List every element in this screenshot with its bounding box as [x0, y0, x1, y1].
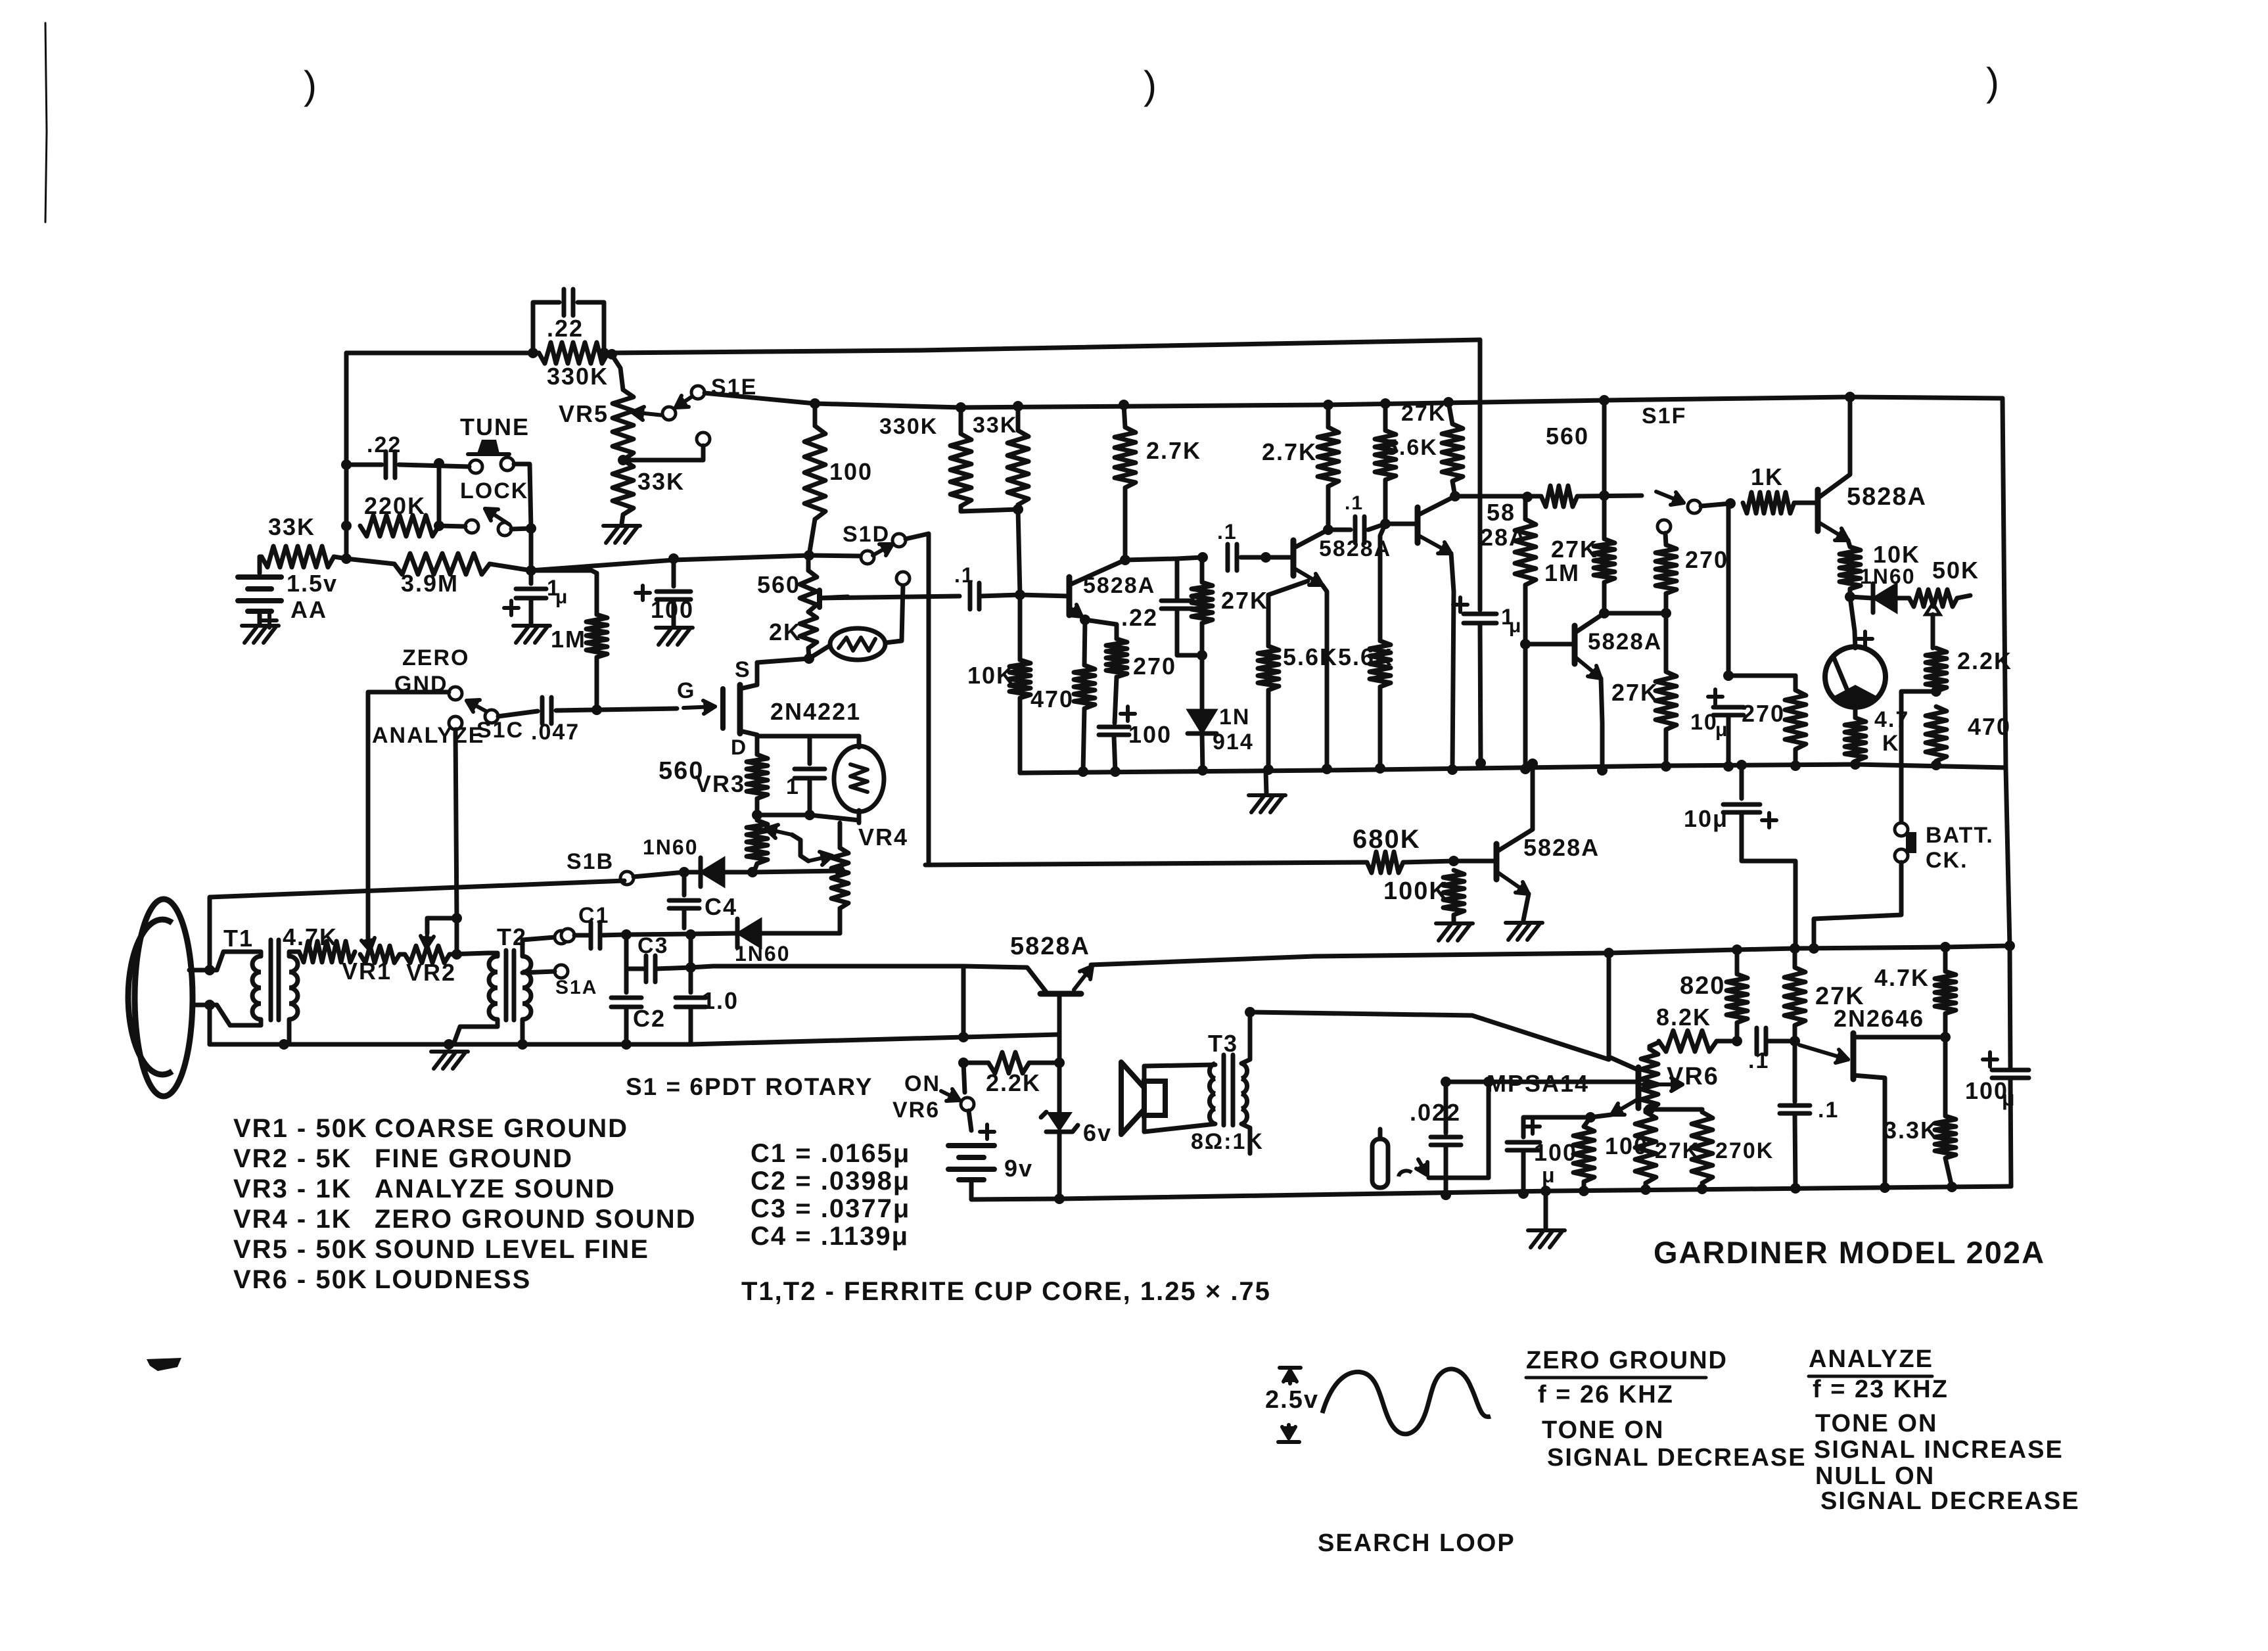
svg-text:TONE ON: TONE ON	[1542, 1416, 1664, 1444]
svg-text:MPSA14: MPSA14	[1487, 1070, 1589, 1097]
svg-text:33K: 33K	[268, 513, 315, 540]
svg-text:1N: 1N	[1219, 705, 1250, 730]
svg-text:): )	[1144, 63, 1158, 107]
svg-text:1K: 1K	[1751, 463, 1784, 490]
svg-text:10K: 10K	[967, 662, 1015, 689]
svg-text:SOUND LEVEL FINE: SOUND LEVEL FINE	[375, 1235, 649, 1264]
svg-text:1.5v: 1.5v	[287, 570, 338, 597]
svg-text:μ: μ	[1542, 1163, 1556, 1187]
svg-text:TUNE: TUNE	[460, 413, 530, 440]
svg-text:270: 270	[1685, 546, 1728, 573]
svg-text:100: 100	[1534, 1139, 1577, 1166]
svg-text:K: K	[1882, 731, 1900, 756]
svg-text:TONE ON: TONE ON	[1815, 1410, 1937, 1437]
svg-text:ANALYZE SOUND: ANALYZE SOUND	[375, 1174, 616, 1203]
svg-text:μ: μ	[1509, 615, 1522, 637]
svg-text:.1: .1	[1217, 520, 1238, 544]
svg-text:): )	[304, 63, 318, 107]
svg-text:ZERO GROUND SOUND: ZERO GROUND SOUND	[375, 1205, 697, 1234]
svg-text:S1F: S1F	[1642, 404, 1686, 429]
svg-text:1N60: 1N60	[643, 835, 699, 859]
svg-text:S: S	[735, 657, 751, 682]
svg-text:50K: 50K	[1932, 557, 1979, 584]
svg-text:T1,T2 - FERRITE CUP CORE, 1.25: T1,T2 - FERRITE CUP CORE, 1.25 × .75	[741, 1277, 1271, 1306]
svg-text:C3: C3	[637, 933, 668, 958]
svg-text:330K: 330K	[547, 363, 609, 390]
svg-text:S1B: S1B	[567, 849, 614, 874]
svg-text:ON: ON	[904, 1071, 940, 1096]
svg-text:VR6 - 50K: VR6 - 50K	[233, 1265, 368, 1294]
svg-text:SIGNAL DECREASE: SIGNAL DECREASE	[1547, 1444, 1807, 1472]
svg-text:C1 = .0165μ: C1 = .0165μ	[751, 1139, 910, 1168]
svg-text:1N60: 1N60	[1860, 565, 1916, 588]
svg-text:1N60: 1N60	[735, 942, 791, 965]
svg-text:VR6: VR6	[892, 1098, 940, 1123]
svg-text:270: 270	[1742, 700, 1785, 727]
svg-text:GARDINER MODEL 202A: GARDINER MODEL 202A	[1654, 1235, 2045, 1270]
svg-text:560: 560	[1546, 423, 1589, 450]
svg-text:COARSE GROUND: COARSE GROUND	[375, 1114, 628, 1143]
svg-text:27K: 27K	[1221, 587, 1268, 614]
svg-text:33K: 33K	[637, 468, 685, 495]
svg-text:LOCK: LOCK	[460, 478, 528, 503]
svg-text:ZERO: ZERO	[402, 645, 469, 670]
svg-text:2N2646: 2N2646	[1834, 1005, 1924, 1032]
svg-text:5.6K: 5.6K	[1283, 643, 1338, 670]
svg-text:.022: .022	[1410, 1099, 1461, 1126]
svg-text:100: 100	[829, 458, 873, 485]
svg-text:ANALYZE: ANALYZE	[372, 723, 484, 748]
svg-text:AA: AA	[290, 596, 327, 623]
svg-text:BATT.: BATT.	[1926, 823, 1994, 848]
svg-text:27K: 27K	[1611, 679, 1659, 706]
svg-text:220K: 220K	[364, 492, 426, 519]
svg-text:560: 560	[757, 571, 800, 598]
svg-text:C4 = .1139μ: C4 = .1139μ	[751, 1222, 909, 1251]
svg-text:C4: C4	[705, 893, 737, 920]
svg-text:10μ: 10μ	[1684, 805, 1728, 832]
svg-text:NULL ON: NULL ON	[1815, 1462, 1935, 1490]
svg-text:914: 914	[1213, 730, 1254, 755]
svg-text:μ: μ	[555, 586, 568, 608]
svg-text:S1 = 6PDT ROTARY: S1 = 6PDT ROTARY	[626, 1073, 873, 1100]
svg-text:4.7: 4.7	[1874, 707, 1909, 732]
svg-text:VR4: VR4	[858, 824, 908, 850]
svg-text:5828A: 5828A	[1847, 483, 1927, 511]
svg-text:470: 470	[1968, 713, 2011, 740]
svg-text:5.6K: 5.6K	[1338, 643, 1393, 670]
svg-text:.22: .22	[1121, 604, 1158, 631]
svg-text:270K: 270K	[1715, 1138, 1774, 1163]
svg-text:FINE GROUND: FINE GROUND	[375, 1144, 573, 1173]
svg-text:820: 820	[1680, 972, 1725, 1000]
svg-text:2.7K: 2.7K	[1146, 437, 1201, 464]
svg-text:f = 23 KHZ: f = 23 KHZ	[1813, 1376, 1949, 1403]
svg-text:SIGNAL INCREASE: SIGNAL INCREASE	[1814, 1436, 2064, 1464]
svg-text:2.7K: 2.7K	[1262, 438, 1317, 465]
svg-text:10K: 10K	[1873, 541, 1920, 568]
svg-text:58: 58	[1487, 499, 1516, 526]
svg-text:VR3: VR3	[695, 770, 745, 797]
svg-text:C1: C1	[578, 903, 609, 928]
svg-text:C2: C2	[633, 1005, 666, 1032]
svg-text:2.2K: 2.2K	[1957, 647, 2012, 674]
svg-text:100K: 100K	[1383, 877, 1448, 905]
svg-text:33K: 33K	[973, 413, 1017, 438]
svg-text:100: 100	[1128, 721, 1172, 748]
svg-text:1M: 1M	[1544, 559, 1580, 586]
svg-text:T1: T1	[223, 925, 254, 952]
svg-text:5828A: 5828A	[1588, 629, 1662, 655]
svg-text:VR5 - 50K: VR5 - 50K	[233, 1235, 368, 1264]
svg-text:S1C: S1C	[476, 718, 524, 743]
svg-text:5.6K: 5.6K	[1385, 435, 1438, 460]
svg-text:.1: .1	[1818, 1098, 1839, 1123]
svg-text:8.2K: 8.2K	[1656, 1004, 1711, 1031]
svg-text:VR2 - 5K: VR2 - 5K	[233, 1144, 352, 1173]
svg-text:VR6: VR6	[1667, 1063, 1719, 1090]
svg-text:S1A: S1A	[555, 977, 597, 998]
svg-text:5828A: 5828A	[1010, 933, 1090, 960]
svg-text:VR4 - 1K: VR4 - 1K	[233, 1205, 352, 1234]
svg-text:D: D	[731, 735, 747, 759]
svg-text:470: 470	[1030, 686, 1074, 712]
svg-text:6v: 6v	[1083, 1119, 1112, 1146]
svg-text:.047: .047	[531, 720, 580, 745]
svg-text:VR5: VR5	[559, 400, 609, 427]
svg-text:C3 = .0377μ: C3 = .0377μ	[751, 1194, 910, 1223]
svg-text:VR2: VR2	[406, 959, 456, 986]
svg-text:VR1: VR1	[342, 958, 392, 985]
svg-text:.1: .1	[1748, 1048, 1769, 1073]
svg-text:4.7K: 4.7K	[1874, 964, 1930, 991]
svg-text:10: 10	[1690, 710, 1718, 735]
svg-text:3.9M: 3.9M	[401, 570, 459, 597]
svg-text:680K: 680K	[1353, 825, 1421, 854]
svg-text:2.5v: 2.5v	[1265, 1386, 1319, 1414]
svg-text:C2 = .0398μ: C2 = .0398μ	[751, 1167, 910, 1196]
svg-text:ZERO GROUND: ZERO GROUND	[1526, 1347, 1728, 1374]
svg-text:9v: 9v	[1004, 1155, 1033, 1182]
svg-text:270: 270	[1133, 653, 1176, 680]
svg-text:VR3 - 1K: VR3 - 1K	[233, 1174, 352, 1203]
svg-text:SEARCH LOOP: SEARCH LOOP	[1318, 1529, 1516, 1557]
svg-text:ANALYZE: ANALYZE	[1809, 1345, 1933, 1373]
svg-text:.1: .1	[1345, 492, 1364, 514]
svg-text:2.2K: 2.2K	[986, 1069, 1041, 1096]
svg-text:SIGNAL DECREASE: SIGNAL DECREASE	[1820, 1487, 2080, 1515]
svg-text:1.0: 1.0	[702, 987, 739, 1014]
svg-text:): )	[1986, 60, 2001, 104]
svg-text:2N4221: 2N4221	[770, 698, 861, 725]
svg-text:CK.: CK.	[1926, 848, 1968, 873]
svg-text:1M: 1M	[551, 626, 586, 653]
svg-text:G: G	[677, 678, 695, 703]
svg-text:3.3K: 3.3K	[1884, 1117, 1939, 1144]
svg-text:5828A: 5828A	[1523, 834, 1600, 861]
svg-text:1: 1	[786, 774, 800, 799]
svg-text:.22: .22	[367, 432, 402, 457]
svg-text:330K: 330K	[879, 414, 938, 439]
svg-text:8Ω:1K: 8Ω:1K	[1191, 1129, 1264, 1154]
svg-text:2K: 2K	[769, 618, 802, 645]
svg-text:f = 26 KHZ: f = 26 KHZ	[1538, 1381, 1674, 1408]
svg-text:VR1 - 50K: VR1 - 50K	[233, 1114, 368, 1143]
svg-text:27K: 27K	[1551, 536, 1598, 563]
svg-text:5828A: 5828A	[1083, 573, 1155, 598]
svg-text:.1: .1	[954, 563, 975, 587]
svg-text:27K: 27K	[1401, 401, 1446, 426]
svg-text:LOUDNESS: LOUDNESS	[375, 1265, 531, 1294]
svg-text:.22: .22	[547, 315, 584, 342]
